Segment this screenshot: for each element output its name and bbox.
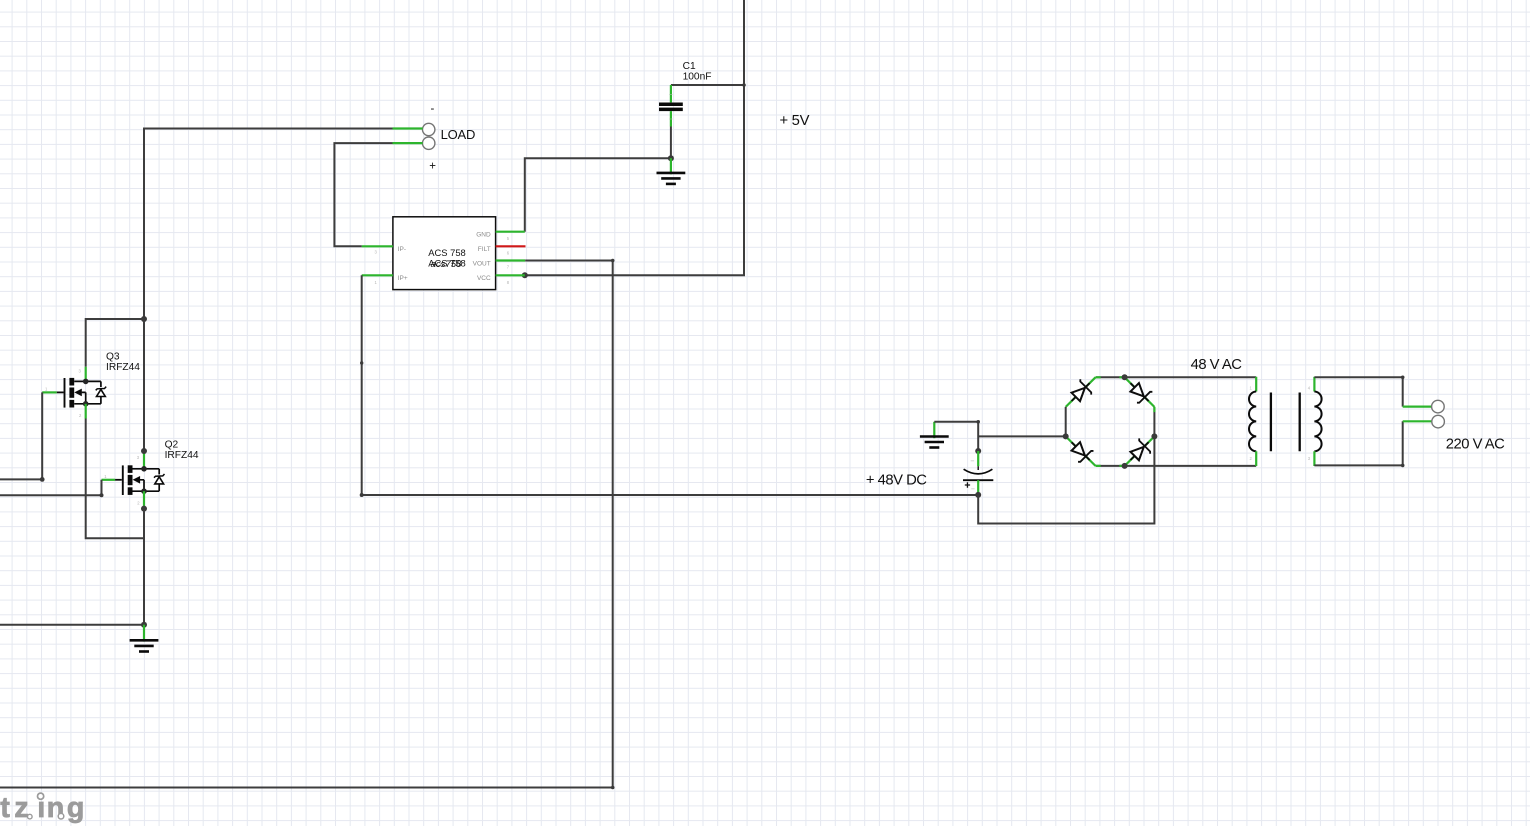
wire secondary bottom to connector bbox=[1314, 421, 1402, 465]
wire +5V vertical and to VCC bbox=[525, 0, 744, 275]
diode D2 top-right of bridge bbox=[1125, 377, 1155, 407]
pin mains line bbox=[1403, 406, 1432, 408]
node bridge right bbox=[1151, 433, 1157, 439]
node bend bottom-right bbox=[1401, 464, 1405, 468]
node bridge top bbox=[1122, 374, 1128, 380]
node bridge bottom bbox=[1122, 463, 1128, 469]
watermark fritzing bbox=[0, 792, 84, 824]
connector 220V circles bbox=[1432, 400, 1445, 428]
svg-text:VCC: VCC bbox=[477, 275, 491, 282]
svg-text:IRFZ44: IRFZ44 bbox=[106, 362, 140, 373]
capacitor C1 bbox=[659, 85, 683, 127]
pin IP+ bbox=[362, 274, 393, 276]
ground near Q2 bbox=[130, 625, 159, 652]
svg-text:acs758: acs758 bbox=[431, 259, 463, 270]
pin VCC bbox=[496, 274, 525, 276]
svg-text:FILT: FILT bbox=[478, 246, 491, 253]
wire bridge pin corner stubs bbox=[1096, 377, 1155, 466]
diode D4 bottom-right of bridge bbox=[1125, 436, 1155, 466]
svg-text:C1: C1 bbox=[683, 61, 696, 72]
node Q2 drain wire joint bbox=[141, 448, 147, 454]
wire to Q3 drain bbox=[86, 319, 144, 367]
svg-text:z: z bbox=[14, 792, 29, 824]
node +48V corner bend bbox=[360, 493, 364, 497]
transistor Q3 IRFZ44 bbox=[42, 367, 106, 419]
ground near C1 bbox=[657, 158, 686, 184]
svg-text:+ 48V DC: + 48V DC bbox=[866, 472, 927, 488]
svg-text:220 V AC: 220 V AC bbox=[1446, 436, 1505, 452]
svg-text:+ 5V: + 5V bbox=[780, 113, 810, 129]
wire Q2 gate down-left bbox=[0, 480, 102, 495]
node gate1 bend bbox=[40, 477, 45, 482]
node bottom corner bend bbox=[611, 786, 615, 790]
node drain tee bbox=[141, 316, 147, 322]
svg-text:GND: GND bbox=[476, 232, 491, 239]
wire cap bottom loop to bridge right node bbox=[978, 436, 1154, 523]
node gate2 bend bbox=[100, 493, 104, 497]
pin LOAD minus bbox=[393, 127, 423, 129]
wire secondary top to connector bbox=[1314, 377, 1402, 406]
node at +5V tee bbox=[742, 83, 746, 87]
diode D3 bottom-left of bridge bbox=[1066, 436, 1096, 466]
node cap bottom junction bbox=[975, 492, 981, 498]
svg-text:t: t bbox=[0, 792, 10, 824]
connector LOAD circles bbox=[423, 123, 435, 149]
svg-text:IP-: IP- bbox=[398, 246, 406, 253]
transistor Q2 IRFZ44 bbox=[102, 451, 165, 506]
wire ground to cap column bbox=[934, 422, 978, 451]
pin IP- bbox=[362, 245, 393, 247]
transformer T1 secondary coil bbox=[1308, 377, 1322, 466]
wire bridge top edge bbox=[1096, 376, 1125, 378]
svg-text:Q2: Q2 bbox=[165, 440, 179, 451]
pin FILT bbox=[496, 245, 526, 247]
wire cap column to bridge left node bbox=[978, 435, 1065, 437]
wire LOAD plus to IP- bbox=[334, 143, 392, 246]
wire LOAD minus to MOSFET drains bbox=[144, 129, 393, 320]
svg-text:g: g bbox=[67, 792, 85, 824]
svg-text:-: - bbox=[431, 103, 435, 115]
wire bridge top to transformer bbox=[1125, 376, 1257, 378]
node cap top junction bbox=[975, 448, 981, 454]
svg-text:100nF: 100nF bbox=[683, 72, 712, 83]
node bridge left bbox=[1063, 433, 1069, 439]
svg-text:IP+: IP+ bbox=[398, 275, 408, 282]
pin mains neutral bbox=[1403, 420, 1432, 422]
wire ground horizontal to left edge bbox=[0, 624, 144, 626]
svg-text:Q3: Q3 bbox=[106, 351, 120, 362]
svg-text:LOAD: LOAD bbox=[441, 127, 476, 142]
wire Q3 source to Q2 column bbox=[86, 419, 144, 539]
diode D1 top-left of bridge bbox=[1066, 377, 1096, 407]
capacitor C2 electrolytic bbox=[963, 451, 993, 495]
wire bridge right edge bbox=[1153, 407, 1155, 437]
wire C1 bottom to gnd junction bbox=[670, 127, 672, 159]
svg-text:+: + bbox=[429, 161, 436, 173]
wire bridge bottom to transformer bbox=[1125, 465, 1257, 467]
node VOUT bend bbox=[611, 259, 615, 263]
wire gnd junction to ACS GND pin bbox=[525, 158, 671, 232]
wire IP+ down and right to +48V bbox=[362, 275, 979, 495]
wire Q2 source to ground bbox=[143, 506, 145, 625]
transformer T1 core bbox=[1271, 393, 1300, 452]
wire VOUT long run down to bottom bbox=[0, 261, 613, 788]
node Q2 source wire joint bbox=[141, 506, 147, 512]
wire to Q2 drain bbox=[143, 319, 145, 451]
pin LOAD plus bbox=[393, 142, 423, 144]
wire bridge bottom edge bbox=[1096, 465, 1125, 467]
wire bridge left edge bbox=[1065, 407, 1067, 437]
svg-text:VOUT: VOUT bbox=[473, 260, 491, 267]
pin VOUT bbox=[496, 259, 526, 261]
node VCC-net / GND wire joint bbox=[522, 272, 528, 278]
node IP+ wire bend bbox=[360, 361, 363, 364]
svg-text:48 V AC: 48 V AC bbox=[1191, 357, 1243, 373]
node source ground junction bbox=[141, 622, 147, 628]
node C1 gnd junction bbox=[668, 155, 674, 161]
wire Q3 gate down-left bbox=[0, 392, 42, 479]
svg-text:IRFZ44: IRFZ44 bbox=[165, 450, 199, 461]
node bend top-right bbox=[1401, 376, 1405, 380]
wire C1 top to +5V rail bbox=[671, 84, 744, 86]
pin GND bbox=[496, 231, 525, 233]
transformer T1 primary coil bbox=[1249, 377, 1256, 466]
node gnd wire bend bbox=[976, 420, 980, 424]
ground near rectifier bbox=[920, 422, 949, 448]
op-amp U1 ACS758 box bbox=[393, 217, 496, 290]
